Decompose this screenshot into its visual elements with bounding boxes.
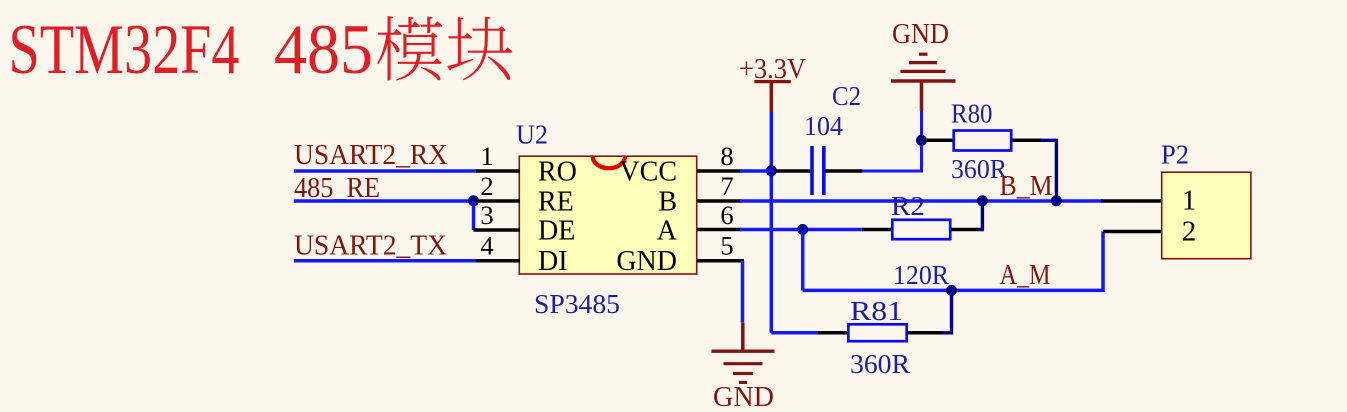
svg-text:5: 5 [720,231,733,261]
svg-text:C2: C2 [832,81,861,111]
svg-text:1: 1 [1182,185,1197,217]
wire A_M to P2 pin2 [1101,232,1105,293]
wire +3.3V vertical [770,112,774,333]
capacitor C2 plates [812,146,824,195]
title STM32F4 485 [9,11,374,89]
svg-text:GND: GND [892,19,949,50]
junction A_M/R81 [946,285,957,296]
svg-text:GND: GND [713,382,774,412]
svg-text:4: 4 [480,231,493,261]
svg-text:RO: RO [538,157,577,188]
wire USART2_TX [294,259,477,263]
wire R80 to B_M [1041,140,1057,201]
wire pin5 to GND [741,261,745,323]
svg-text:RE: RE [538,187,574,218]
svg-text:SP3485: SP3485 [534,289,620,319]
svg-text:DI: DI [538,246,568,277]
svg-text:USART2_RX: USART2_RX [294,140,448,171]
pin 4 stub [476,259,520,263]
resistor R2 left lead [862,228,892,232]
junction at 485_RE [468,195,479,206]
svg-text:2: 2 [480,171,493,201]
wire +3.3V to R81 [771,331,819,335]
svg-text:8: 8 [720,141,733,171]
pin 6 stub [697,228,742,232]
svg-text:7: 7 [720,171,733,201]
svg-text:USART2_TX: USART2_TX [294,231,447,262]
wire USART2_RX [294,169,477,173]
wire R2 to B [978,201,983,230]
connector P2 body [1162,172,1251,259]
svg-text:STM32F4: STM32F4 [9,11,240,89]
wire A to A_M vertical [801,230,805,291]
svg-text:6: 6 [720,200,733,230]
svg-text:R2: R2 [891,191,925,221]
svg-text:B_M: B_M [1000,171,1053,202]
resistor R80 body [954,131,1012,151]
wire P2 pin1 stub [1101,199,1163,203]
resistor R2 body [892,220,950,239]
pin 7 stub [697,199,742,203]
wire P2 pin2 stub [1103,230,1163,234]
resistor R2 right lead [951,228,978,232]
capacitor C2 left lead [774,169,810,173]
junction A/A_M [797,224,808,235]
pin 5 stub [697,259,744,263]
wire RE-DE vertical [472,201,476,230]
capacitor C2 right lead [826,169,863,173]
resistor R80 right lead [1013,139,1042,143]
IC U2 SP3485 body [519,156,696,274]
svg-text:DE: DE [538,216,575,247]
pin 3 stub [474,228,521,232]
svg-text:485: 485 [274,11,373,89]
svg-text:120R: 120R [893,260,949,290]
svg-text:P2: P2 [1161,139,1189,169]
junction VCC/+3.3V [766,165,777,176]
svg-text:485_RE: 485_RE [294,173,380,204]
svg-text:GND: GND [616,246,677,277]
wire C2 to GND line [862,111,922,171]
ground symbol bottom [712,323,775,383]
title char 块 [447,17,512,81]
svg-text:A_M: A_M [1000,260,1051,291]
ground symbol top [891,54,956,111]
svg-text:U2: U2 [516,120,548,150]
pin 1 stub [476,169,520,173]
wire net A_M [803,289,1102,293]
svg-text:A: A [657,216,678,247]
svg-text:2: 2 [1182,215,1197,247]
svg-text:R80: R80 [951,98,993,128]
svg-text:B: B [658,187,677,218]
junction B/R2 [977,195,988,206]
wire R81 to A_M [942,290,952,332]
wire net A [740,228,863,232]
wire pin8 to +3.3V [740,169,774,173]
title char 模 [377,16,442,81]
resistor R81 left lead [818,331,848,335]
svg-text:R81: R81 [850,296,903,326]
resistor R80 left lead [924,139,952,143]
svg-text:360R: 360R [850,349,910,379]
wire net B [740,199,1103,203]
wire 485_RE [294,199,474,203]
junction GND/C2/R80 [916,135,927,146]
resistor R81 body [848,324,906,341]
svg-text:VCC: VCC [619,157,677,188]
power +3.3V stub [770,82,774,112]
pin 2 stub [474,199,521,203]
svg-text:3: 3 [480,200,493,230]
junction B_M [1051,195,1062,206]
pin 8 stub [697,169,742,173]
power +3.3V bar [754,80,790,83]
resistor R81 right lead [907,331,943,335]
svg-text:104: 104 [804,111,843,141]
svg-text:1: 1 [480,141,493,171]
